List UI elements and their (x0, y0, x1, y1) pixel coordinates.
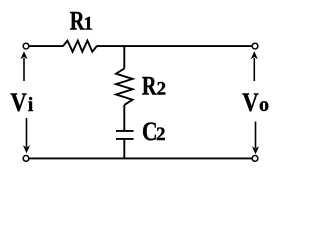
arrow up (Vo upper) (251, 51, 258, 81)
wire top-left: input terminal to R1 (29, 45, 63, 47)
terminal top-right (252, 43, 258, 49)
wire top-right: R1 to output terminal through node A (96, 45, 251, 47)
label R1 (70, 7, 93, 36)
resistor R2 (116, 69, 133, 105)
capacitor C2 (116, 131, 134, 139)
resistor R1 (63, 41, 97, 52)
label Vo (242, 89, 269, 118)
arrow down (Vi lower) (23, 118, 30, 153)
svg-text:2: 2 (157, 79, 167, 100)
arrow up (Vi upper) (20, 51, 27, 81)
arrow down (Vo lower) (252, 122, 259, 155)
wire: R2 to C2 (123, 105, 125, 131)
terminal top-left (23, 43, 29, 49)
label Vi (10, 89, 33, 118)
svg-text:R: R (142, 72, 158, 101)
node A: junction of R1 and R2 branch (123, 45, 125, 68)
svg-text:V: V (242, 89, 259, 118)
terminal bottom-right (252, 156, 258, 162)
svg-text:V: V (10, 89, 27, 118)
terminal bottom-left (23, 156, 29, 162)
wire: C2 to bottom rail (123, 139, 125, 159)
svg-text:i: i (28, 94, 34, 116)
label R2 (142, 72, 166, 101)
svg-text:1: 1 (84, 14, 94, 35)
label C2 (142, 118, 166, 146)
svg-text:2: 2 (156, 124, 166, 145)
wire bottom rail (29, 157, 251, 159)
svg-text:o: o (259, 94, 269, 116)
